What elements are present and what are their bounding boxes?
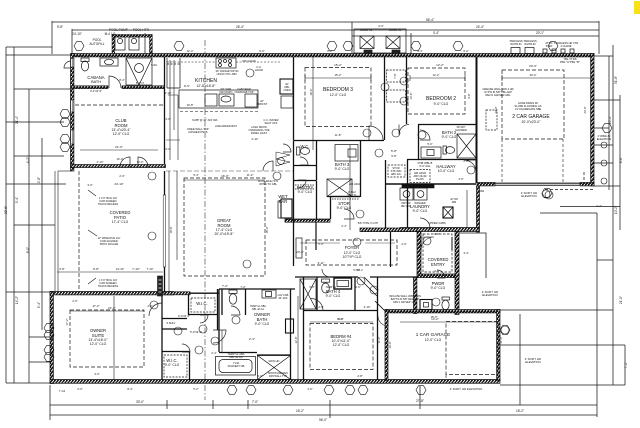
svg-text:DBL 42 GA: DBL 42 GA <box>229 355 242 359</box>
svg-text:5 SHLV: 5 SHLV <box>167 321 176 325</box>
svg-text:11'-8": 11'-8" <box>335 133 342 137</box>
owner shower <box>258 356 291 380</box>
svg-text:C.BM: C.BM <box>478 190 484 193</box>
garage door 2car <box>495 183 580 185</box>
door cabana bath <box>109 76 121 88</box>
svg-text:21'-0": 21'-0" <box>619 296 623 304</box>
door bed2 hall <box>399 125 409 135</box>
svg-text:16'-0": 16'-0" <box>265 227 269 234</box>
left ticks <box>6 47 71 383</box>
wic2 shelves <box>164 355 187 377</box>
svg-text:7'-10": 7'-10" <box>132 267 140 271</box>
svg-text:BATH: BATH <box>91 80 101 84</box>
right ticks <box>500 56 625 385</box>
svg-text:4' SOFIT. HD ELEVATION: 4' SOFIT. HD ELEVATION <box>450 387 482 391</box>
door club 2 <box>138 157 148 167</box>
foyer angled closet <box>358 277 385 311</box>
svg-text:3'-2": 3'-2" <box>165 147 170 151</box>
air handler box <box>410 170 430 183</box>
svg-text:3'-0": 3'-0" <box>257 374 262 378</box>
svg-text:6'-2": 6'-2" <box>463 49 468 53</box>
svg-text:5'-4": 5'-4" <box>37 302 41 308</box>
svg-text:M-4 1/2: M-4 1/2 <box>105 32 116 36</box>
svg-text:12'-4": 12'-4" <box>187 49 194 53</box>
svg-text:8'-4": 8'-4" <box>119 78 124 82</box>
svg-text:2'-6": 2'-6" <box>355 285 360 289</box>
cabana toilet <box>81 58 89 62</box>
svg-text:12'-0" CLG: 12'-0" CLG <box>90 342 107 346</box>
svg-text:3'-0": 3'-0" <box>87 183 92 187</box>
svg-text:RE2 D HAFNER GBL: RE2 D HAFNER GBL <box>486 93 511 97</box>
svg-text:33'-0": 33'-0" <box>136 400 144 404</box>
svg-text:17'-4" CLG: 17'-4" CLG <box>112 220 129 224</box>
svg-text:5'-0": 5'-0" <box>318 242 323 246</box>
svg-text:26'-4": 26'-4" <box>236 25 244 29</box>
svg-text:2'-8": 2'-8" <box>463 159 468 163</box>
wall greatroom right <box>293 141 295 267</box>
svg-text:ELEVATION: ELEVATION <box>525 360 540 364</box>
foyer jamb stubs <box>316 222 391 267</box>
svg-text:14'-2": 14'-2" <box>15 296 19 304</box>
svg-text:7'-2": 7'-2" <box>624 362 628 368</box>
door entry double <box>421 237 434 250</box>
svg-text:8'-6": 8'-6" <box>619 157 623 163</box>
svg-text:10'TYP CLG: 10'TYP CLG <box>343 255 362 259</box>
svg-text:4'-4": 4'-4" <box>417 49 422 53</box>
closet shelves bed3-bed2 a <box>387 70 406 82</box>
svg-text:9'-0" CLG: 9'-0" CLG <box>165 363 180 367</box>
svg-text:8'-2": 8'-2" <box>327 49 332 53</box>
svg-text:8'-4": 8'-4" <box>127 387 132 391</box>
laundry bottom wall <box>360 228 417 232</box>
bath3 shelf <box>295 185 452 311</box>
svg-text:20'-1": 20'-1" <box>536 31 544 35</box>
wall hall bottom <box>385 183 476 185</box>
svg-text:RB2 TL: RB2 TL <box>347 193 357 197</box>
wall bath2 left <box>418 125 420 161</box>
door owner wc <box>231 306 240 315</box>
svg-text:HOOD VTD. ABV.: HOOD VTD. ABV. <box>217 72 238 76</box>
wet bar counter <box>278 201 281 218</box>
wall lin closet <box>162 319 187 330</box>
svg-text:4'-4": 4'-4" <box>433 31 439 35</box>
svg-text:12'-2": 12'-2" <box>433 73 440 77</box>
kitchen dim row <box>166 95 180 140</box>
wall shower top <box>257 354 290 356</box>
svg-text:PATIO ROLLER: PATIO ROLLER <box>100 242 119 246</box>
washer <box>400 188 413 200</box>
foyer dashed ceiling <box>306 110 497 272</box>
svg-text:ABV A/C: ABV A/C <box>391 172 401 176</box>
dim line top3 <box>352 35 599 37</box>
wall hall top <box>407 159 476 161</box>
svg-text:10'-2": 10'-2" <box>614 206 618 214</box>
svg-text:9'-0" CLG: 9'-0" CLG <box>255 322 270 326</box>
dim patio bottom <box>57 271 163 273</box>
svg-text:2'-4": 2'-4" <box>249 337 255 341</box>
door bed4 <box>311 299 323 311</box>
bath3 vanity <box>335 145 358 162</box>
svg-text:3'-0": 3'-0" <box>378 24 384 28</box>
wall laundry left <box>407 160 409 229</box>
svg-text:3'-0": 3'-0" <box>434 269 439 273</box>
svg-text:DBL 42 GA: DBL 42 GA <box>252 308 264 311</box>
svg-text:24'-10": 24'-10" <box>114 182 123 186</box>
svg-text:3'-4": 3'-4" <box>463 251 468 255</box>
wall wc bottom <box>294 165 317 167</box>
wall stor top <box>331 196 361 198</box>
svg-text:3'-4"x5'-6": 3'-4"x5'-6" <box>90 89 102 93</box>
dim kitchen v <box>170 60 178 160</box>
svg-text:TRACK RECESS: TRACK RECESS <box>98 202 118 206</box>
1car garage right wall <box>497 310 500 381</box>
stor shelves <box>332 198 359 200</box>
pwdr front wall <box>414 278 417 314</box>
svg-text:21'-0": 21'-0" <box>499 337 503 344</box>
svg-text:15'-2": 15'-2" <box>335 73 342 77</box>
bath4 toilet <box>322 279 330 282</box>
svg-text:CV AGGREGATE SBE: CV AGGREGATE SBE <box>515 107 542 111</box>
hex markers bottom <box>227 386 237 395</box>
bottom dim1 <box>50 404 597 406</box>
laundry counter <box>402 185 434 188</box>
section line <box>204 40 206 400</box>
svg-text:3'-11": 3'-11" <box>318 261 325 265</box>
svg-text:27'-8": 27'-8" <box>416 399 424 403</box>
svg-text:12'-0" CLG: 12'-0" CLG <box>113 132 130 136</box>
pantry corner shelves <box>276 152 290 166</box>
svg-text:2'-8": 2'-8" <box>318 305 323 309</box>
top exterior wall <box>71 54 594 57</box>
riser x72 <box>71 29 73 54</box>
entry left wall <box>417 232 421 275</box>
svg-text:OVEN: OVEN <box>283 88 290 92</box>
ceiling club room <box>75 104 163 106</box>
dim line top1 <box>52 21 599 23</box>
wall owner bath left <box>218 289 220 352</box>
wall wic1 right <box>217 289 219 330</box>
condenser unit 1 <box>360 36 374 49</box>
greatroom south wall <box>164 292 219 295</box>
svg-text:2'-4 1/2": 2'-4 1/2" <box>74 55 83 58</box>
dim foyer <box>300 242 395 244</box>
wall vents <box>543 49 547 53</box>
svg-text:OVERHAB TOP: OVERHAB TOP <box>234 90 254 94</box>
svg-text:2'-10": 2'-10" <box>97 160 104 164</box>
svg-text:9'-0" CLG: 9'-0" CLG <box>335 167 350 171</box>
bath2 shower <box>457 134 476 158</box>
door pwdr <box>437 270 445 278</box>
wall bed2-garage <box>476 57 478 183</box>
svg-text:9'-0" AGL: 9'-0" AGL <box>419 164 431 168</box>
garage1 door track dashes <box>446 375 497 380</box>
svg-text:VTD HOOD: VTD HOOD <box>242 59 256 63</box>
svg-text:7'-10": 7'-10" <box>147 267 154 271</box>
svg-text:21'-4": 21'-4" <box>15 116 19 124</box>
right dim v4 <box>624 345 626 385</box>
svg-text:9'-4": 9'-4" <box>15 197 19 203</box>
door stor <box>344 209 354 219</box>
wall bath3 right <box>360 141 362 198</box>
pool heater unit <box>129 37 139 50</box>
left exterior wall lower <box>50 292 53 384</box>
svg-text:16'-2": 16'-2" <box>296 409 304 413</box>
bath2 toilet <box>443 146 446 154</box>
svg-text:10'-8": 10'-8" <box>187 103 194 107</box>
svg-text:24'-10": 24'-10" <box>116 267 124 271</box>
wall wic2 right <box>189 352 191 381</box>
svg-text:9'-0"x5'-6": 9'-0"x5'-6" <box>178 314 190 318</box>
svg-text:9'-0" CLG: 9'-0" CLG <box>434 102 449 106</box>
left dim v2 <box>13 47 15 383</box>
riser x145 <box>144 33 146 54</box>
wall bed4 left <box>303 277 305 380</box>
svg-text:10'-0" CLG: 10'-0" CLG <box>438 169 455 173</box>
dim club <box>80 149 158 151</box>
ceiling bedroom3 <box>305 68 371 127</box>
svg-text:UPPER CABS: UPPER CABS <box>428 221 446 225</box>
entry door slabs <box>421 237 452 250</box>
porch step lines <box>459 233 486 278</box>
bath3 shower <box>327 179 352 197</box>
bottom tick risers <box>167 386 420 418</box>
svg-text:2'-0": 2'-0" <box>119 174 124 178</box>
pantry bottom wall <box>285 219 330 222</box>
svg-text:ELEVATION: ELEVATION <box>597 137 611 141</box>
foyer niche <box>296 238 302 258</box>
svg-text:AUTOFILL: AUTOFILL <box>89 42 104 46</box>
dim garage1 <box>400 321 497 323</box>
svg-text:4'-11": 4'-11" <box>251 137 258 141</box>
wall bath4 inner2 <box>354 277 356 310</box>
svg-text:DW DISPO: DW DISPO <box>219 90 232 94</box>
svg-text:21'-2": 21'-2" <box>108 306 116 310</box>
svg-text:12'-8"x16'-8": 12'-8"x16'-8" <box>197 84 217 88</box>
dim bed3 v <box>312 57 314 150</box>
circle tags <box>246 69 254 77</box>
tankless wh 1 <box>511 48 520 54</box>
svg-text:SUPP @ 42" AFF W/L: SUPP @ 42" AFF W/L <box>192 118 218 122</box>
svg-text:2'-6": 2'-6" <box>401 242 406 246</box>
wall wic1 left <box>188 295 190 315</box>
owner suite top wall <box>50 292 174 295</box>
svg-text:9'-0" CLG: 9'-0" CLG <box>431 286 446 290</box>
owner vanity <box>262 290 276 298</box>
svg-text:11'-2": 11'-2" <box>377 337 381 344</box>
svg-text:WHTR #1: WHTR #1 <box>510 42 522 46</box>
pwdr vanity <box>420 300 432 310</box>
1car garage left wall <box>385 310 388 381</box>
svg-text:9'-8": 9'-8" <box>57 25 63 29</box>
riser x599 <box>598 21 600 54</box>
closet shelves bed3-bed2 b <box>387 90 406 102</box>
svg-text:7'-0": 7'-0" <box>252 400 258 404</box>
wall bath top band <box>219 288 295 290</box>
svg-text:23'-0": 23'-0" <box>583 107 587 114</box>
door owner suite <box>149 303 162 316</box>
svg-text:PLATF: PLATF <box>416 177 424 181</box>
svg-text:7'-2": 7'-2" <box>240 285 245 289</box>
svg-text:W.I.C.: W.I.C. <box>196 301 207 306</box>
svg-text:20'-0": 20'-0" <box>530 73 537 77</box>
svg-text:DASHED PNTS: DASHED PNTS <box>188 130 207 134</box>
svg-text:21'-0": 21'-0" <box>115 145 123 149</box>
svg-text:2 CHASE: 2 CHASE <box>560 44 571 48</box>
svg-text:LINE MAKER BOX: LINE MAKER BOX <box>215 124 237 128</box>
dim bed3 <box>305 75 371 81</box>
svg-text:16'-0": 16'-0" <box>117 157 124 161</box>
svg-text:13'-0": 13'-0" <box>388 342 392 349</box>
door hall end <box>464 160 476 172</box>
svg-text:HOOD: HOOD <box>255 68 263 72</box>
wall bath2 top <box>418 124 476 126</box>
svg-text:16'-4": 16'-4" <box>309 89 313 96</box>
door wetbar a <box>263 161 273 171</box>
riser x52 <box>51 21 53 54</box>
wall kitchen-bed3 <box>293 57 295 140</box>
svg-text:TRACK RECESS: TRACK RECESS <box>98 284 118 288</box>
svg-text:24'-4": 24'-4" <box>476 25 484 29</box>
dryer <box>414 188 427 200</box>
entry bottom wall <box>417 274 459 278</box>
svg-text:7'-2": 7'-2" <box>222 284 228 288</box>
svg-text:15'-2": 15'-2" <box>334 63 342 67</box>
wall stor right <box>385 160 387 228</box>
door pantry <box>298 180 306 188</box>
svg-text:PBL "A"PBL "B": PBL "A"PBL "B" <box>560 60 580 64</box>
wall bath3 left <box>316 141 318 181</box>
wall bed2 left <box>406 57 408 124</box>
svg-text:9'-0" CLG: 9'-0" CLG <box>337 206 352 210</box>
dim greatroom <box>184 179 265 181</box>
door bath2 <box>420 130 430 140</box>
wic1 shelves <box>191 298 215 312</box>
svg-text:20'-0"x19'-8": 20'-0"x19'-8" <box>215 232 235 236</box>
bottom riser right <box>596 213 598 417</box>
upper cabinets dashed <box>167 61 280 63</box>
owner tub <box>216 357 256 376</box>
svg-text:11'-0": 11'-0" <box>247 173 254 177</box>
svg-text:BRKFST: BRKFST <box>257 102 268 106</box>
hose bibbs right <box>601 142 607 148</box>
wall bath4 inner1 <box>316 277 318 310</box>
ceiling bedroom2 <box>408 68 465 114</box>
door wic1 <box>200 315 208 323</box>
svg-text:3'-6": 3'-6" <box>458 177 463 181</box>
dim line top2 <box>72 29 599 31</box>
patio screen dashed <box>78 171 80 292</box>
ceiling bedroom4 <box>310 324 373 370</box>
svg-text:3'-0": 3'-0" <box>94 372 99 376</box>
wall cabana bottom <box>71 86 108 89</box>
left wall window <box>71 59 74 145</box>
door garage1 <box>378 316 388 326</box>
wall owner bath tub top <box>219 352 257 354</box>
right dim v3 <box>619 95 621 230</box>
svg-text:TEMP GL: TEMP GL <box>326 286 337 289</box>
garage right wall <box>591 54 594 187</box>
door bed3 <box>369 126 383 140</box>
svg-text:AIR HDLR: AIR HDLR <box>349 182 361 186</box>
wall bed3 bottom <box>294 140 385 142</box>
wall bath4 bottom <box>303 310 377 312</box>
svg-text:20'-0": 20'-0" <box>529 64 537 68</box>
svg-text:5/8 TYPE X GYP: 5/8 TYPE X GYP <box>358 221 379 225</box>
svg-text:STEP: STEP <box>546 44 553 48</box>
left dim v3 <box>28 89 30 383</box>
svg-text:WHTR #2: WHTR #2 <box>524 42 536 46</box>
hex markers top <box>74 42 84 51</box>
svg-text:31'-8": 31'-8" <box>614 76 618 84</box>
front wall below garage <box>477 186 480 232</box>
svg-text:5'-8": 5'-8" <box>391 154 396 158</box>
kitchen island <box>179 90 258 108</box>
condenser unit 2 <box>386 36 400 49</box>
garage bottom wall right part <box>580 183 594 186</box>
svg-text:7 1/4: 7 1/4 <box>59 389 66 393</box>
svg-text:18'-0": 18'-0" <box>431 315 438 319</box>
wall stor left <box>330 197 332 220</box>
svg-text:56'-4": 56'-4" <box>426 18 434 22</box>
kitchen range <box>216 58 236 68</box>
entry ceiling dashed <box>423 234 452 272</box>
svg-text:12'-0" CLG: 12'-0" CLG <box>333 343 350 347</box>
pool pad enclosure <box>112 35 115 54</box>
door owner bath entry <box>213 330 226 343</box>
svg-text:9'-0" CLG: 9'-0" CLG <box>298 190 313 194</box>
svg-text:42" AFF: 42" AFF <box>278 296 288 300</box>
svg-text:17'-2": 17'-2" <box>65 319 69 326</box>
patio sliding door <box>163 195 165 267</box>
owner wc toilet <box>229 290 237 293</box>
svg-text:2'-10": 2'-10" <box>165 91 172 95</box>
svg-text:T-WL: T-WL <box>151 63 158 67</box>
svg-text:9'-0" CLG: 9'-0" CLG <box>413 209 428 213</box>
svg-text:SOAKER TUB: SOAKER TUB <box>228 364 245 368</box>
svg-text:MIN 2 HR SEP. GBL: MIN 2 HR SEP. GBL <box>393 300 417 304</box>
oven cabinet <box>280 79 293 94</box>
garage bottom wall left part <box>477 183 495 186</box>
svg-text:19'-8": 19'-8" <box>169 227 173 234</box>
kitchen greatroom beam line <box>166 170 293 172</box>
svg-text:5'-4": 5'-4" <box>193 173 198 177</box>
svg-text:ELEVATION: ELEVATION <box>521 194 536 198</box>
wall bed4 right <box>377 277 379 380</box>
svg-text:6'-8": 6'-8" <box>59 267 64 271</box>
svg-text:32'-8": 32'-8" <box>4 206 8 214</box>
entry right wall <box>455 232 459 315</box>
wall pantry right <box>316 181 318 220</box>
1car garage top wall <box>385 310 500 313</box>
bottom riser left <box>49 385 51 420</box>
wall owner suite right <box>161 295 163 380</box>
wc toilet <box>297 147 300 155</box>
owner suite mid line <box>113 296 115 380</box>
patio top edge line <box>58 170 71 172</box>
svg-text:COND #1: COND #1 <box>360 28 373 32</box>
svg-text:7'-6": 7'-6" <box>393 73 397 78</box>
right dim v1 <box>608 56 610 190</box>
svg-text:9'-0" CLG: 9'-0" CLG <box>326 294 341 298</box>
svg-text:4'-6": 4'-6" <box>165 117 170 121</box>
svg-text:12'-0" CLG: 12'-0" CLG <box>330 93 347 97</box>
attic access garage <box>486 110 497 130</box>
wall pantry top <box>294 180 317 182</box>
bath4 tub <box>334 278 352 289</box>
wall bath3 bottom <box>327 196 360 198</box>
svg-text:POOL PUMP — POOL HTR: POOL PUMP — POOL HTR <box>109 28 150 32</box>
pantry cabinet <box>281 96 293 108</box>
